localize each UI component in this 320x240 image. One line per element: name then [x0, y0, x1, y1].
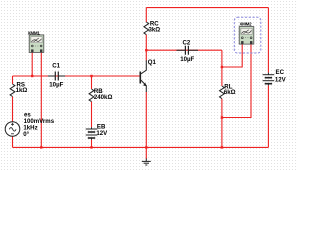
svg-text:10µF: 10µF — [49, 82, 63, 89]
node XMM2 plus tap — [221, 66, 223, 68]
wire XMM2 minus — [222, 45, 251, 118]
resistor RC — [144, 22, 149, 35]
multimeter XMM2 — [234, 17, 260, 53]
ground — [142, 159, 151, 166]
wire ground bus — [13, 146, 269, 148]
svg-text:240kΩ: 240kΩ — [94, 94, 113, 101]
svg-text:EC: EC — [276, 69, 285, 76]
node RB top junction — [90, 75, 92, 77]
svg-text:12V: 12V — [96, 130, 108, 137]
capacitor C1 — [48, 72, 65, 81]
svg-text:3kΩ: 3kΩ — [149, 27, 161, 34]
node input/XMM1 junction — [31, 75, 33, 77]
svg-text:12V: 12V — [275, 77, 287, 84]
resistor RB — [89, 89, 94, 102]
svg-text:XMM1: XMM1 — [28, 31, 41, 36]
node bus EB junction — [90, 146, 92, 148]
wire RB branch — [91, 76, 93, 147]
node collector junction — [145, 49, 147, 51]
wire XMM2 plus — [222, 45, 242, 68]
multimeter XMM1 — [29, 35, 44, 53]
wire XMM1 plus — [31, 52, 33, 76]
resistor RL — [220, 86, 225, 99]
wire left branch RS-es — [12, 76, 14, 147]
capacitor C2 — [177, 46, 199, 55]
wire XMM1 minus — [40, 52, 42, 147]
svg-text:0°: 0° — [23, 131, 29, 138]
wire RC branch — [145, 8, 147, 61]
transistor Q1 — [140, 60, 146, 92]
svg-text:XMM2: XMM2 — [239, 21, 252, 26]
battery EB — [86, 127, 98, 140]
wire top rail — [146, 7, 268, 9]
wire EC branch — [267, 8, 269, 148]
node bus ground junction — [145, 146, 147, 148]
svg-text:1kΩ: 1kΩ — [16, 87, 28, 94]
node bus RL junction — [221, 146, 223, 148]
node XMM2 minus tap — [221, 116, 223, 118]
wire emitter to bus — [145, 92, 147, 159]
svg-text:C1: C1 — [52, 63, 60, 70]
wire RL branch — [221, 50, 223, 147]
resistor RS — [10, 84, 15, 97]
battery EC — [263, 73, 275, 86]
svg-text:Q1: Q1 — [148, 59, 157, 66]
wire input node horizontal — [13, 75, 141, 77]
svg-text:10µF: 10µF — [180, 56, 194, 63]
wire collector output — [146, 49, 222, 51]
node bus XMM1 junction — [40, 146, 42, 148]
svg-text:6kΩ: 6kΩ — [224, 89, 236, 96]
ac source es — [5, 122, 20, 137]
svg-text:C2: C2 — [183, 39, 191, 46]
